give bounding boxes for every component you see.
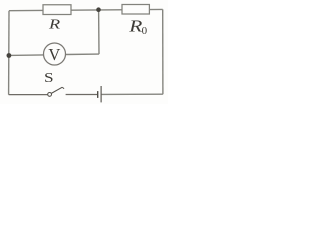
svg-text:V: V (48, 45, 60, 64)
svg-text:0: 0 (142, 25, 148, 37)
svg-text:S: S (44, 70, 54, 85)
svg-text:R: R (48, 17, 60, 33)
svg-text:R: R (128, 18, 143, 36)
